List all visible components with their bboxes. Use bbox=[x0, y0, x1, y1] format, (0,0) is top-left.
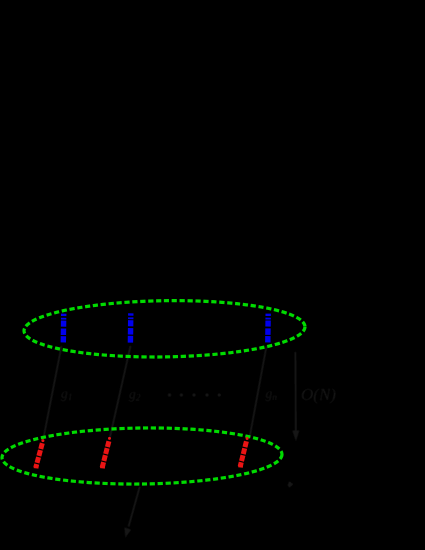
red fiber bar 3 bbox=[240, 441, 246, 466]
blue fiber bar 3 bbox=[265, 314, 271, 343]
red fiber bar 3 top dot bbox=[246, 437, 249, 440]
red fiber bar 2 top dot bbox=[108, 437, 111, 440]
bottom projection arrow shaft bbox=[129, 487, 140, 527]
faint mark lower right bbox=[288, 481, 294, 488]
red fiber bar 1 top dot bbox=[41, 439, 44, 442]
blue fiber bar 1 bbox=[61, 314, 67, 343]
fiber line gn bbox=[250, 346, 267, 438]
cdots bbox=[168, 393, 221, 396]
O(N) arrow shaft bbox=[294, 352, 296, 432]
svg-text:O(N): O(N) bbox=[301, 385, 336, 404]
fiber line g1 bbox=[44, 346, 62, 438]
fiber line g2 bbox=[110, 346, 131, 437]
blue fiber bar 2 bbox=[128, 313, 134, 342]
red fiber bar 2 bbox=[102, 441, 109, 467]
red bar 1 foot bbox=[34, 465, 39, 469]
lower ellipse (green dashed) bbox=[2, 426, 283, 485]
O(N) arrowhead bbox=[292, 431, 299, 442]
bottom projection arrowhead bbox=[124, 527, 131, 538]
red fiber bar 1 bbox=[36, 443, 43, 467]
red bar 2 foot bbox=[100, 465, 105, 469]
upper ellipse (green dashed) bbox=[24, 299, 306, 359]
red bar 3 foot bbox=[238, 464, 243, 468]
